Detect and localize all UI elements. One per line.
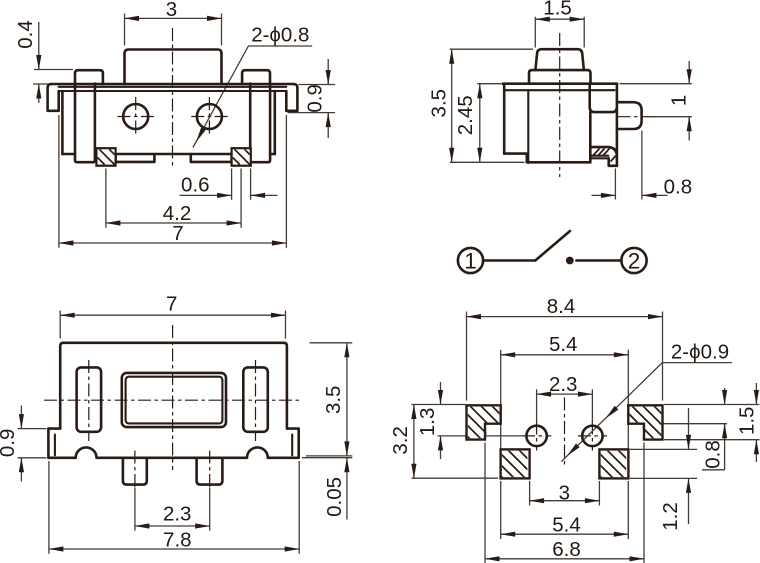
svg-text:2-ϕ0.9: 2-ϕ0.9 <box>671 340 729 363</box>
svg-text:8.4: 8.4 <box>547 295 576 318</box>
svg-text:3.2: 3.2 <box>389 426 412 455</box>
svg-text:0.4: 0.4 <box>14 20 37 49</box>
svg-text:3.5: 3.5 <box>428 89 451 118</box>
svg-text:3: 3 <box>166 0 177 21</box>
svg-text:0.9: 0.9 <box>304 84 327 113</box>
svg-text:0.8: 0.8 <box>664 176 693 199</box>
svg-text:2: 2 <box>628 249 641 274</box>
svg-text:2.3: 2.3 <box>163 502 192 525</box>
svg-text:0.8: 0.8 <box>701 440 724 469</box>
svg-text:2.45: 2.45 <box>454 95 477 135</box>
svg-text:6.8: 6.8 <box>552 538 581 561</box>
svg-text:3.5: 3.5 <box>322 386 345 415</box>
svg-text:1.5: 1.5 <box>543 0 572 19</box>
svg-text:1.5: 1.5 <box>736 407 759 436</box>
svg-text:1.2: 1.2 <box>659 502 682 531</box>
svg-text:2-ϕ0.8: 2-ϕ0.8 <box>251 24 309 47</box>
svg-text:0.9: 0.9 <box>0 429 19 458</box>
svg-text:7.8: 7.8 <box>163 528 192 551</box>
svg-text:3: 3 <box>559 481 570 504</box>
svg-text:1.3: 1.3 <box>416 408 439 437</box>
svg-text:2.3: 2.3 <box>549 373 578 396</box>
svg-text:0.05: 0.05 <box>323 477 346 517</box>
svg-text:5.4: 5.4 <box>552 514 581 537</box>
svg-text:7: 7 <box>166 292 177 315</box>
svg-text:5.4: 5.4 <box>549 333 578 356</box>
svg-text:1: 1 <box>667 95 690 106</box>
svg-text:0.6: 0.6 <box>181 174 210 197</box>
svg-text:7: 7 <box>172 222 183 245</box>
svg-text:1: 1 <box>464 249 477 274</box>
